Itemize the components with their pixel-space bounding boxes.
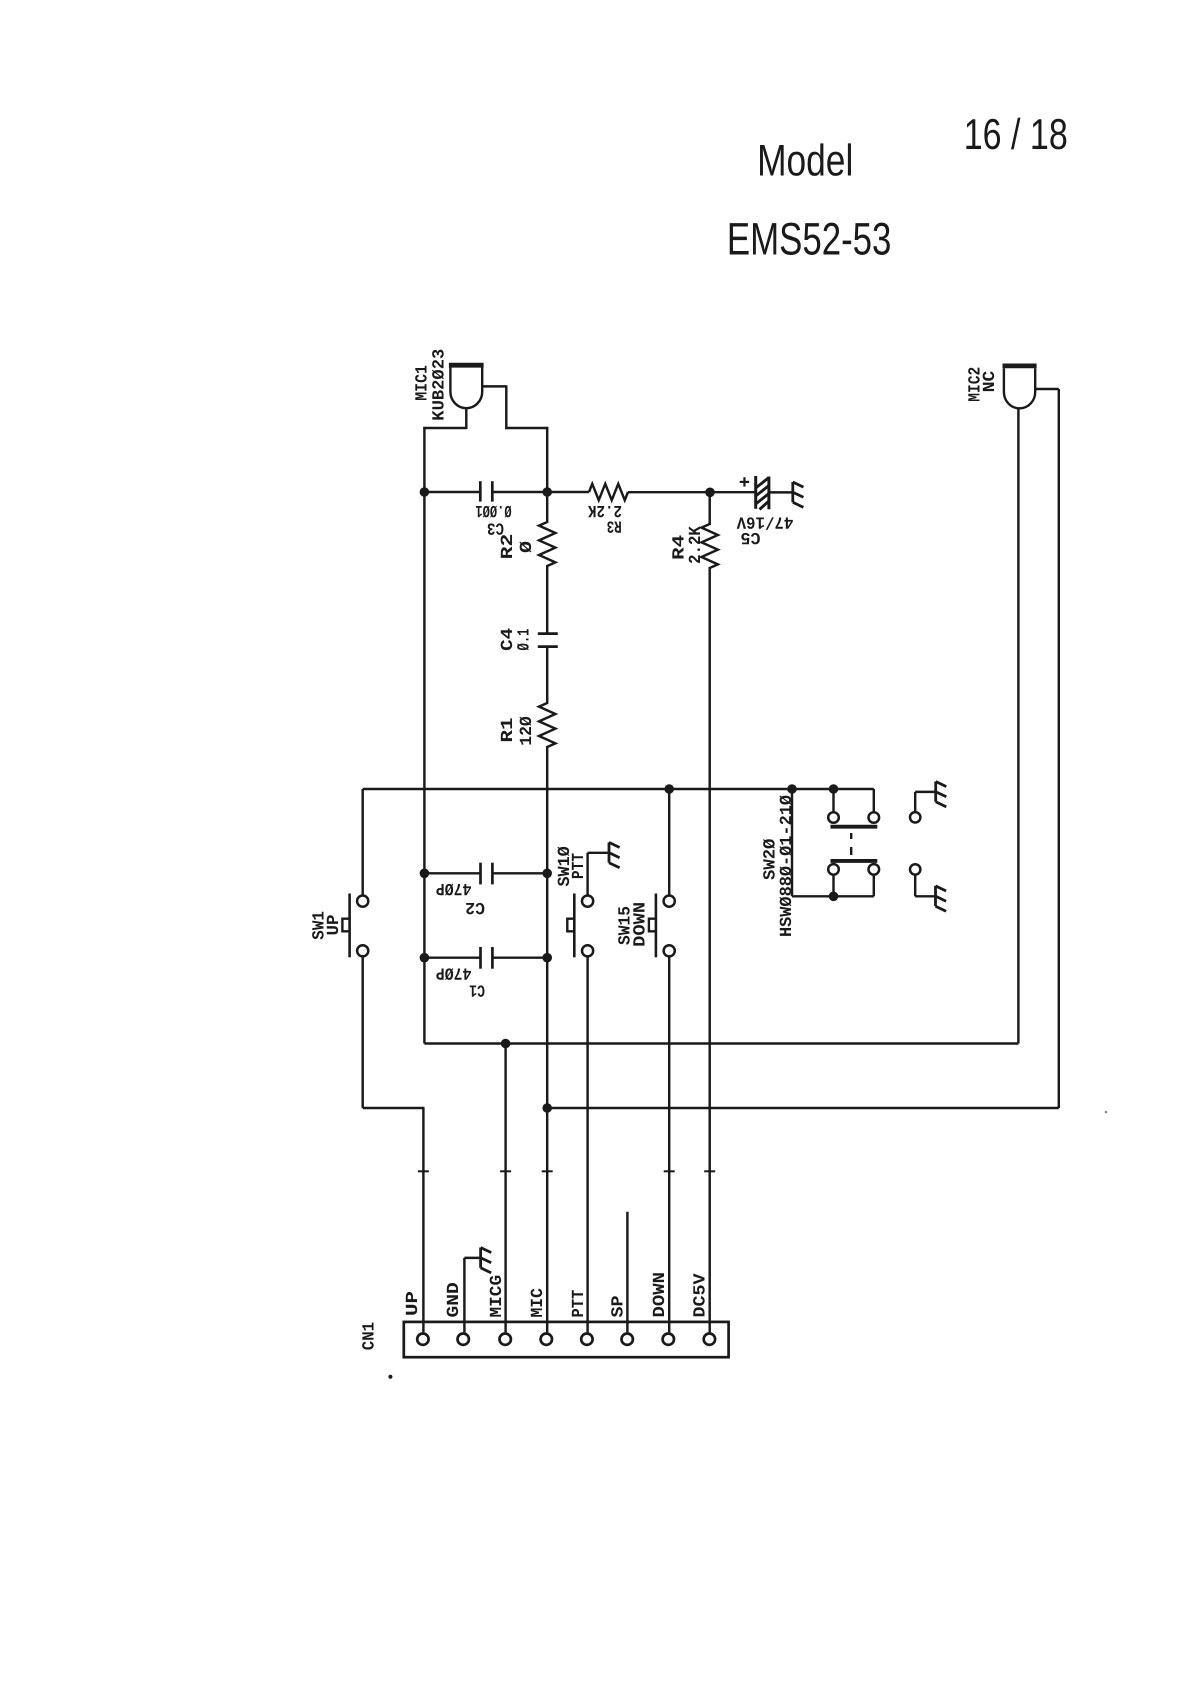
svg-text:Ø.ØØ1: Ø.ØØ1: [475, 500, 511, 519]
svg-text:KUB2Ø23: KUB2Ø23: [431, 349, 450, 421]
svg-text:GND: GND: [445, 1282, 464, 1317]
svg-text:HSWØ88Ø-Ø1-21Ø: HSWØ88Ø-Ø1-21Ø: [778, 795, 797, 937]
svg-text:Ø: Ø: [518, 541, 537, 553]
svg-text:12Ø: 12Ø: [518, 716, 537, 746]
svg-text:R1: R1: [499, 718, 518, 743]
svg-text:47ØP: 47ØP: [436, 878, 472, 897]
svg-text:MIC: MIC: [529, 1288, 548, 1317]
svg-text:C1: C1: [469, 979, 485, 998]
svg-text:Ø.1: Ø.1: [516, 629, 535, 651]
svg-text:C5: C5: [740, 527, 760, 546]
svg-text:DOWN: DOWN: [651, 1272, 670, 1318]
svg-text:PTT: PTT: [570, 853, 589, 879]
svg-text:C3: C3: [487, 517, 504, 536]
svg-text:UP: UP: [404, 1291, 423, 1316]
svg-text:R2: R2: [499, 534, 518, 560]
svg-text:47ØP: 47ØP: [436, 962, 472, 981]
svg-text:16 / 18: 16 / 18: [964, 111, 1068, 159]
svg-text:R3: R3: [607, 516, 622, 535]
svg-text:UP: UP: [325, 915, 344, 936]
svg-text:C2: C2: [465, 897, 485, 916]
svg-text:EMS52-53: EMS52-53: [727, 214, 892, 265]
svg-text:PTT: PTT: [570, 1290, 589, 1318]
svg-text:Model: Model: [757, 137, 853, 186]
svg-text:DOWN: DOWN: [631, 902, 650, 947]
svg-text:CN1: CN1: [361, 1322, 380, 1350]
svg-text:DC5V: DC5V: [691, 1273, 710, 1318]
svg-text:MICG: MICG: [488, 1275, 507, 1318]
svg-text:SP: SP: [610, 1295, 629, 1317]
svg-text:NC: NC: [981, 371, 1000, 393]
